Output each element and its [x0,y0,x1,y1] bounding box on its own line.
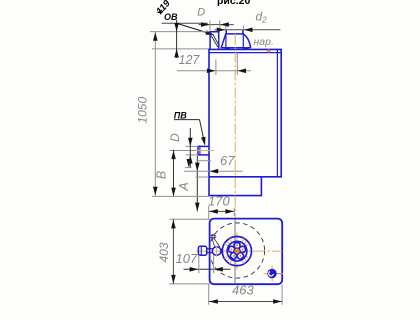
svg-text:463: 463 [232,283,254,298]
flue pipe stubs [225,30,227,34]
burner outer ring [222,237,251,266]
dimension 1050 line [154,32,156,196]
leader shelf for ОВ [162,22,208,24]
svg-text:127: 127 [179,53,201,67]
svg-text:рис.20: рис.20 [217,0,250,7]
extension tank bottom [196,176,209,178]
tank inner top line [209,52,281,54]
svg-text:d2: d2 [256,9,268,24]
projection line tank axis gray [236,53,238,75]
stub hatch mark [211,35,218,47]
svg-text:А: А [177,182,191,191]
leader diagonal for ОВ [177,23,210,33]
dimension d2 line [215,29,281,31]
extension base bottom [152,195,209,197]
dashed circle tank projection [209,223,264,278]
valve connector lines [207,248,213,250]
ОВ stub pipe [210,32,219,50]
svg-text:1050: 1050 [135,97,149,124]
rotated dimension text 119 with leader tick [154,0,173,17]
extension line tank top [152,48,209,50]
stub axis centerline [196,150,214,152]
svg-text:D: D [168,133,182,142]
dimension D (top) line [199,24,234,26]
svg-text:нар.: нар. [254,36,274,48]
centerline flue axis (orange) [234,34,236,220]
dimension B vertical [173,150,175,197]
gas valve body [198,246,206,255]
leader arrow ОВ [205,30,215,37]
burner inner ring [227,241,247,261]
gas cock circle [212,247,221,256]
plan view box [210,219,283,285]
screw circle bottom right [267,269,276,278]
tank body outline [209,49,281,176]
svg-text:ОВ: ОВ [164,12,178,22]
leader ПВ [174,119,200,121]
svg-text:67: 67 [220,153,235,168]
draft hood collar [221,47,251,49]
svg-text:170: 170 [208,193,230,208]
cock to burner neck [221,248,223,250]
ПВ stub pipe [198,146,209,155]
burner slots [228,243,246,260]
tank inner right wall [276,50,278,177]
plan main centerline horizontal [196,250,282,252]
dimension line 119 vertical [176,20,178,58]
dimension line at stub left edge [196,156,198,211]
extension below stub [197,160,211,162]
extension line stub top [150,31,210,33]
projection line left [208,206,210,219]
thermostat bolt [211,234,216,239]
projection line burner axis (gray) [234,219,236,283]
svg-text:403: 403 [157,242,171,262]
dimension D (stub) vertical [189,128,191,168]
burner centerline vertical [236,233,238,270]
svg-text:D: D [197,7,205,19]
base box [209,177,261,196]
weld mark orange cross on tank top [267,49,272,54]
screw centerlines [271,266,273,282]
extension lines stub edges [186,145,199,147]
dimension 403 [170,218,211,220]
bolt lever lines [212,239,215,247]
burner rays orange [224,238,249,263]
burner center star [234,248,240,254]
svg-text:ПВ: ПВ [174,110,187,120]
svg-text:В: В [154,171,168,179]
svg-text:107: 107 [176,251,198,266]
